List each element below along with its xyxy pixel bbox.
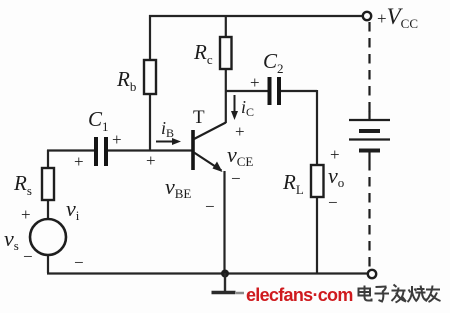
wire: source to C1 bbox=[47, 149, 95, 151]
watermark CJK you bbox=[426, 286, 441, 303]
watermark CJK zi bbox=[375, 287, 390, 302]
svg-text:+: + bbox=[112, 130, 122, 149]
wire: bottom ground rail bbox=[47, 272, 368, 274]
resistor Rs bbox=[42, 168, 54, 200]
watermark CJK dian bbox=[359, 286, 372, 301]
resistor Rb bbox=[144, 60, 156, 94]
resistor Rc bbox=[220, 37, 232, 69]
svg-text:elecfans·com: elecfans·com bbox=[246, 285, 353, 305]
svg-text:T: T bbox=[193, 107, 205, 128]
wire: Rb branch bbox=[149, 15, 151, 151]
capacitor C1 bbox=[96, 137, 106, 166]
watermark CJK shao bbox=[408, 286, 427, 303]
terminal +VCC bbox=[363, 12, 371, 20]
battery VCC bbox=[349, 111, 390, 161]
svg-text:−: − bbox=[231, 169, 241, 188]
wire: C1 to base bbox=[106, 149, 192, 151]
current arrow iC bbox=[231, 95, 238, 120]
wire: collector node to C2 bbox=[226, 90, 268, 92]
svg-text:−: − bbox=[205, 197, 215, 216]
svg-text:+: + bbox=[330, 145, 340, 164]
svg-text:+: + bbox=[74, 152, 84, 171]
wire: emitter branch bbox=[223, 171, 225, 274]
ground bbox=[212, 273, 236, 293]
terminal bottom right bbox=[368, 270, 376, 278]
resistor RL bbox=[311, 165, 324, 197]
wire: C2 to RL branch bbox=[280, 90, 318, 92]
source vs bbox=[30, 219, 66, 255]
dashed lead battery to bottom terminal bbox=[368, 161, 370, 269]
watermark leader dash bbox=[236, 292, 250, 295]
wire: collector branch bbox=[225, 15, 227, 123]
dashed lead VCC to battery bbox=[368, 22, 370, 112]
wire: top supply rail bbox=[149, 15, 363, 17]
svg-text:−: − bbox=[328, 193, 338, 212]
svg-text:−: − bbox=[74, 253, 84, 272]
watermark CJK fa bbox=[392, 285, 407, 303]
svg-text:+: + bbox=[235, 122, 245, 141]
svg-text:+: + bbox=[250, 73, 260, 92]
transistor T bbox=[193, 123, 226, 173]
svg-text:+: + bbox=[146, 151, 156, 170]
capacitor C2 bbox=[270, 77, 280, 105]
current arrow iB bbox=[156, 138, 181, 145]
wire: left source branch bbox=[47, 150, 49, 273]
svg-text:−: − bbox=[23, 247, 33, 266]
svg-text:+: + bbox=[21, 205, 31, 224]
junction: emitter at ground rail bbox=[221, 270, 229, 278]
wire: RL branch bbox=[316, 90, 318, 274]
